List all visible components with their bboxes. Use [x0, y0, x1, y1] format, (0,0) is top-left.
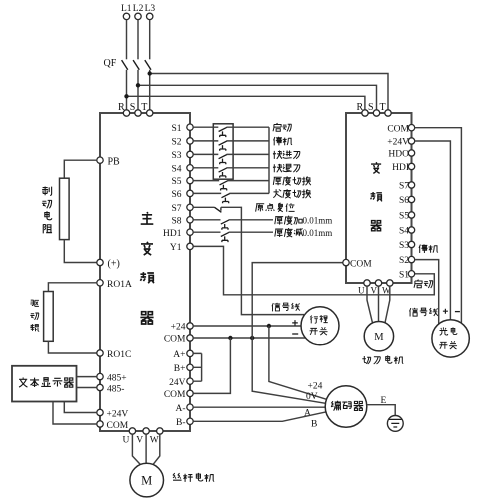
terminal W right: [387, 280, 393, 286]
terminal S4 main: [187, 165, 193, 171]
wire right COM to photo switch minus: [415, 128, 462, 323]
svg-text:+24V: +24V: [387, 138, 409, 148]
terminal S3 main: [187, 151, 193, 157]
terminal S1 right inverter: [408, 271, 414, 277]
terminal COM main lower: [187, 335, 193, 341]
wire B- to encoder B: [193, 412, 326, 421]
wire pushbutton to bus (启动): [227, 126, 270, 128]
terminal B+ main lower: [187, 364, 193, 370]
terminal HD1 main: [187, 229, 193, 235]
wire S4 to pushbutton: [193, 167, 218, 169]
terminal U right: [364, 280, 370, 286]
label 厚度加0.01mm: [275, 216, 302, 225]
terminal RO1C: [97, 350, 103, 356]
svg-text:+24: +24: [171, 323, 186, 333]
svg-text:HDO: HDO: [388, 150, 409, 160]
terminal S3 right inverter: [408, 241, 414, 247]
svg-text:S2: S2: [171, 138, 181, 148]
wire pushbutton 厚度加 leader: [229, 219, 273, 221]
terminal S6 right inverter: [408, 196, 414, 202]
wire right S2 to photo switch signal: [415, 260, 439, 324]
wire S1 to pushbutton: [193, 126, 218, 128]
pushbutton 快进刀: [219, 155, 227, 165]
terminal HDI right inverter: [408, 163, 414, 169]
svg-text:QF: QF: [104, 58, 117, 69]
terminal HDO right inverter: [408, 150, 414, 156]
pushbutton 厚度切换: [220, 181, 228, 191]
terminal 485-: [97, 384, 103, 390]
svg-text:485+: 485+: [107, 374, 127, 384]
svg-text:S1: S1: [399, 270, 409, 280]
node L3 terminal: [147, 13, 153, 19]
terminal R main: [123, 110, 129, 116]
svg-text:L3: L3: [145, 4, 156, 14]
terminal S4 right inverter: [408, 227, 414, 233]
terminal COM main lower: [187, 390, 193, 396]
terminal T main: [147, 110, 153, 116]
wire COM branch to encoder 0V: [252, 338, 325, 403]
svg-text:S1: S1: [171, 124, 181, 134]
resistor 制动电阻 body: [60, 178, 70, 239]
svg-text:COM: COM: [164, 335, 186, 345]
wire L1 branch to right inverter R: [127, 96, 365, 109]
travel switch 行程开关: [301, 307, 339, 345]
second inverter title 变频器: [371, 162, 381, 173]
svg-text:A+: A+: [173, 350, 185, 360]
svg-text:HD1: HD1: [163, 229, 182, 239]
terminal COM right inverter left side: [343, 259, 349, 265]
wire S7 to travel switch (signal): [221, 207, 304, 314]
svg-text:S: S: [368, 102, 374, 113]
label minus photo: [455, 311, 460, 313]
label 厚度减0.01mm: [275, 228, 303, 237]
terminal PB: [97, 157, 103, 163]
svg-text:COM: COM: [387, 124, 409, 134]
terminal +24V right inverter: [408, 138, 414, 144]
svg-text:M: M: [374, 332, 384, 343]
wire S6 to pushbutton: [193, 192, 221, 194]
svg-text:(+): (+): [108, 259, 120, 270]
wire display to +24V: [64, 402, 97, 413]
node L2 terminal: [135, 13, 141, 19]
wire S2 to pushbutton: [193, 140, 218, 142]
earth ground symbol: [387, 416, 403, 432]
svg-text:B-: B-: [176, 418, 186, 428]
label 停机 right: [419, 244, 438, 253]
svg-text:COM: COM: [164, 390, 186, 400]
junction on L1: [124, 94, 128, 98]
device 文本显示器 box: [12, 366, 77, 402]
label 切刀电机: [362, 355, 403, 364]
svg-text:V: V: [136, 436, 143, 446]
wire pushbutton to bus (快退刀): [227, 167, 270, 169]
terminal COM right inverter: [408, 125, 414, 131]
wire encoder E to earth: [367, 405, 396, 420]
label 丝杆电机: [173, 473, 214, 482]
terminal 24V main lower: [187, 378, 193, 384]
svg-text:COM: COM: [107, 421, 129, 431]
load 驱动辊 body: [44, 292, 54, 342]
terminal RO1A: [97, 280, 103, 286]
svg-text:S3: S3: [399, 241, 409, 251]
terminal S right: [373, 110, 379, 116]
wire W right to cutter motor: [385, 286, 390, 323]
svg-text:COM: COM: [350, 260, 372, 270]
terminal S7 right inverter: [408, 182, 414, 188]
terminal A- main lower: [187, 404, 193, 410]
terminal V right: [375, 280, 381, 286]
terminal S2 right inverter: [408, 256, 414, 262]
breaker QF pole 1: [126, 20, 128, 60]
terminal COM left: [97, 421, 103, 427]
common bus of pushbuttons: [268, 127, 270, 193]
second inverter U2 box: [346, 113, 412, 283]
junction COM to 0V: [250, 336, 254, 340]
label 厚度切换: [273, 176, 311, 185]
terminal Y1 main: [187, 243, 193, 249]
svg-text:S4: S4: [399, 227, 409, 237]
terminal +24 main lower: [187, 323, 193, 329]
wire pushbutton to bus (厚度切换): [227, 180, 269, 182]
wire pushbutton to bus (长度切换): [229, 192, 269, 194]
wire pushbutton to bus (停机): [227, 140, 270, 142]
svg-text:S8: S8: [171, 216, 181, 226]
svg-text:RO1C: RO1C: [107, 350, 131, 360]
label 信号线 left: [272, 303, 300, 311]
pushbutton 厚度加: [221, 220, 229, 230]
svg-text:S2: S2: [399, 256, 409, 266]
svg-text:U: U: [123, 436, 130, 446]
terminal +24V left: [97, 409, 103, 415]
svg-text:A-: A-: [175, 404, 185, 414]
label 原点复位: [256, 203, 295, 212]
svg-text:+24: +24: [308, 381, 323, 391]
label 制动电阻: [42, 186, 52, 233]
pushbutton 停机: [219, 141, 227, 151]
motor M2 cutter motor: [364, 322, 393, 351]
junction on L2: [136, 83, 140, 87]
photoelectric switch 光电开关: [432, 320, 469, 357]
svg-text:L2: L2: [133, 4, 144, 14]
wire U to screw motor: [132, 434, 140, 465]
terminal 485+: [97, 373, 103, 379]
svg-text:PB: PB: [108, 157, 121, 168]
pushbutton 长度切换: [222, 194, 230, 204]
label 停机: [274, 137, 293, 146]
svg-text:E: E: [381, 396, 387, 406]
svg-text:W: W: [150, 436, 159, 446]
wire pushbutton 厚度减 leader: [229, 231, 273, 233]
breaker QF pole 2: [137, 20, 139, 60]
junction +24 branch: [267, 324, 271, 328]
label minus travel: [292, 333, 298, 335]
main inverter title 主变频器: [141, 212, 154, 224]
svg-text:0.01mm: 0.01mm: [303, 215, 333, 225]
terminal S7 main: [187, 204, 193, 210]
wire COM to travel switch minus: [193, 337, 305, 339]
wire S8 to pushbutton: [193, 219, 220, 221]
wire U right to cutter motor: [367, 286, 373, 323]
wire COM to right inverter COM: [252, 263, 343, 338]
jumper A+ B+ 24V: [193, 353, 201, 381]
svg-text:B+: B+: [174, 364, 186, 374]
terminal (+): [97, 259, 103, 265]
terminal B- main lower: [187, 418, 193, 424]
terminal R right: [362, 110, 368, 116]
main inverter U1 box: [100, 113, 190, 431]
encoder 编码器: [325, 386, 367, 428]
wire L2 branch to right inverter S: [138, 85, 377, 109]
wire +24 to travel switch plus: [193, 325, 301, 327]
svg-text:0.01mm: 0.01mm: [303, 228, 333, 238]
terminal S5 right inverter: [408, 212, 414, 218]
svg-text:+24V: +24V: [107, 410, 129, 420]
label 启动 right: [414, 280, 433, 288]
svg-text:S6: S6: [399, 196, 409, 206]
terminal S5 main: [187, 177, 193, 183]
label 快退刀: [273, 164, 300, 172]
svg-text:U: U: [358, 286, 365, 296]
terminal U main: [129, 428, 135, 434]
wire braking resistor to (+): [64, 240, 97, 263]
svg-text:S5: S5: [171, 177, 181, 187]
wire S5 to pushbutton: [193, 180, 219, 182]
wire PB to braking resistor: [64, 160, 97, 178]
wire S7 to knife switch: [193, 206, 214, 208]
svg-text:24V: 24V: [169, 378, 186, 388]
wire display to 485-: [77, 387, 97, 389]
terminal S8 main: [187, 217, 193, 223]
wire pushbutton to bus (快进刀): [227, 153, 270, 155]
node L1 terminal: [123, 13, 129, 19]
label 快进刀: [273, 151, 300, 159]
label 文本显示器: [19, 377, 74, 387]
wire S3 to pushbutton: [193, 153, 218, 155]
wire V to screw motor: [145, 434, 147, 463]
knife switch 原点复位: [215, 207, 222, 212]
svg-text:HDI: HDI: [392, 163, 409, 173]
svg-text:Y1: Y1: [170, 243, 182, 253]
wire drive roller to RO1C: [48, 341, 96, 353]
wire HD1 to pushbutton: [193, 231, 220, 233]
svg-text:B: B: [311, 420, 317, 430]
svg-text:S4: S4: [171, 164, 181, 174]
breaker QF pole 3: [149, 20, 151, 60]
svg-text:0V: 0V: [306, 392, 318, 402]
label plus travel: [292, 320, 298, 326]
label 长度切换: [273, 189, 311, 198]
terminal S6 main: [187, 190, 193, 196]
label 信号线 right: [409, 308, 437, 317]
svg-text:S5: S5: [399, 212, 409, 222]
wire RO1A to drive roller: [48, 283, 96, 292]
svg-text:S6: S6: [171, 190, 181, 200]
svg-text:S3: S3: [171, 151, 181, 161]
junction on L3: [148, 71, 152, 75]
wire display to 485+: [77, 376, 97, 378]
wire W to screw motor: [153, 434, 160, 465]
wire V right to cutter motor: [378, 286, 380, 321]
pushbutton 启动: [219, 127, 227, 137]
wire A- to encoder A: [193, 406, 325, 408]
svg-text:485-: 485-: [107, 385, 124, 395]
junction COM to COM2: [228, 336, 232, 340]
svg-text:L1: L1: [121, 4, 132, 14]
svg-text:V: V: [371, 286, 378, 296]
wire L3 branch to right inverter T: [150, 74, 388, 110]
terminal S2 main: [187, 138, 193, 144]
pushbutton 厚度减: [221, 232, 229, 242]
svg-text:RO1A: RO1A: [107, 280, 132, 290]
label plus photo: [443, 309, 448, 314]
svg-text:S7: S7: [171, 204, 181, 214]
label 驱动辊: [30, 300, 39, 331]
terminal W main: [157, 428, 163, 434]
terminal T right: [385, 110, 391, 116]
motor M1 screw motor: [130, 463, 164, 497]
terminal V main: [143, 428, 149, 434]
svg-text:S7: S7: [399, 182, 409, 192]
wire Y1 to right inverter S1: [193, 246, 434, 294]
pushbutton 快退刀: [219, 168, 227, 178]
terminal S1 main: [187, 124, 193, 130]
terminal A+ main lower: [187, 350, 193, 356]
label 启动: [273, 123, 292, 131]
svg-text:M: M: [141, 474, 152, 488]
wire COM2 link: [193, 338, 230, 393]
switch unit box: [213, 124, 233, 179]
wire display to COM: [53, 402, 97, 425]
wire +24 branch to encoder: [269, 326, 327, 399]
terminal S main: [135, 110, 141, 116]
wire right +24V to photo switch plus: [415, 141, 451, 320]
